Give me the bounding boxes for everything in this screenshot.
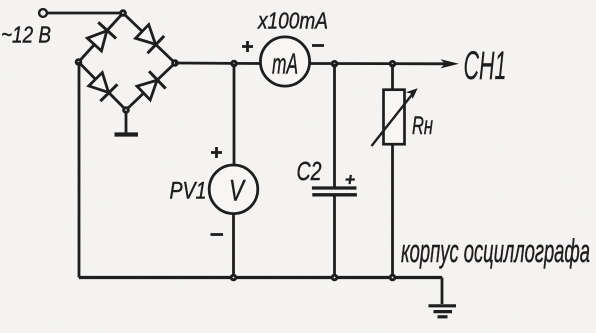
svg-text:C2: C2 [297, 156, 322, 186]
voltmeter PV1 [209, 165, 258, 214]
resistor Rn (variable) [384, 90, 405, 145]
PV1 + sign [211, 147, 222, 158]
wire: bridge left node down to bottom rail [78, 62, 81, 278]
node: bridge bottom [122, 106, 130, 114]
capacitor C2 [312, 188, 357, 195]
input terminal ~12V [39, 9, 47, 17]
wire: top bus down to Rn [391, 64, 394, 90]
C2 + sign [345, 175, 355, 184]
ammeter + sign [242, 41, 253, 52]
node: rail / C2 [331, 274, 339, 282]
node: bridge right [171, 59, 179, 67]
node: top bus / PV1 branch [230, 60, 238, 68]
node: bridge top [119, 9, 127, 17]
PV1 − sign [211, 233, 224, 236]
Rn adjustment arrow [372, 94, 413, 146]
ammeter PA (mA) [260, 37, 309, 86]
node: top bus / Rn branch [389, 60, 397, 68]
wire: rail to chassis ground [441, 278, 444, 305]
diode VD3 (left-bottom arm) [79, 62, 127, 110]
svg-text:x100mA: x100mA [257, 8, 328, 34]
wire: bridge right node to ammeter [175, 62, 261, 65]
node: rail / Rn [389, 274, 397, 282]
svg-text:Rн: Rн [412, 112, 433, 140]
svg-text:mA: mA [272, 49, 298, 81]
wire: ammeter to CH1 arrow [309, 62, 446, 65]
wire: Rn down to bottom rail [391, 144, 394, 277]
wire terminal to bridge top [47, 12, 123, 15]
node: top bus / C2 branch [331, 60, 339, 68]
wire: C2 down to bottom rail [333, 195, 336, 278]
arrowhead to CH1 [441, 59, 460, 68]
svg-text:CH1: CH1 [464, 44, 507, 88]
node: rail / PV1 [230, 274, 238, 282]
ground (bridge AC return) [115, 110, 139, 135]
svg-text:корпус осциллографа: корпус осциллографа [401, 233, 590, 269]
diode VD2 (top-right arm) [123, 13, 175, 63]
wire: top bus down to C2 [333, 64, 336, 187]
wire: PV1 down to bottom rail [232, 214, 235, 278]
svg-text:V: V [229, 175, 246, 208]
diode VD1 (left-top arm) [79, 13, 124, 62]
wire: top bus down to PV1 [233, 64, 236, 166]
node: bridge left [75, 58, 83, 66]
ammeter − sign [312, 44, 324, 47]
svg-text:~12 В: ~12 В [1, 22, 51, 48]
svg-text:PV1: PV1 [170, 178, 207, 205]
wire: bottom rail [79, 276, 442, 279]
diode VD4 (bottom-right arm) [126, 63, 175, 110]
chassis ground (oscilloscope case) [429, 306, 457, 317]
